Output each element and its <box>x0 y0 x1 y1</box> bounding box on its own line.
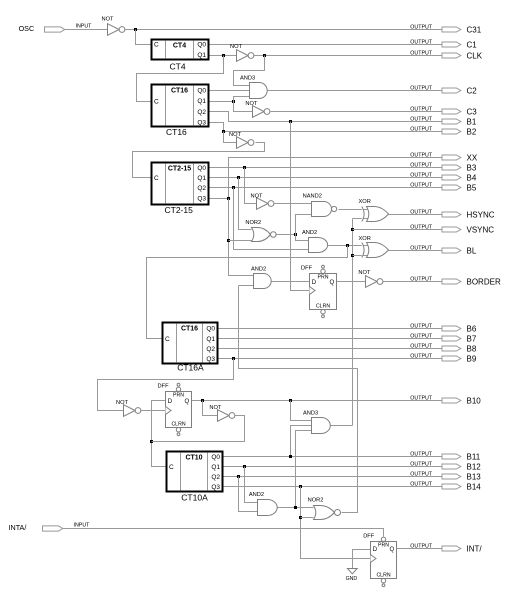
wire CLK branch to AND3 top input <box>234 56 265 86</box>
svg-text:INTA/: INTA/ <box>9 523 27 532</box>
junction dot VSYNC start <box>351 228 354 231</box>
wire feedback from NOT5 <box>152 416 245 442</box>
svg-text:OUTPUT: OUTPUT <box>410 471 433 477</box>
svg-text:CT2-15: CT2-15 <box>165 205 194 215</box>
svg-text:VSYNC: VSYNC <box>467 225 495 234</box>
XOR gate U11 (BL) <box>359 236 389 258</box>
svg-text:CLK: CLK <box>467 51 483 60</box>
wire VSYNC output <box>353 229 443 231</box>
svg-text:NOT: NOT <box>251 193 264 199</box>
svg-text:Q2: Q2 <box>211 474 220 481</box>
svg-text:OUTPUT: OUTPUT <box>410 39 433 45</box>
wire B2 branch down to NOT3 input <box>224 132 237 143</box>
NOT gate U4 (C3 inverter) <box>245 101 270 117</box>
output connector C2 <box>410 85 477 95</box>
wire INTA input to DFF3 PRN <box>63 529 384 537</box>
wire NOT out to C3 output <box>271 111 443 113</box>
junction dot B12 branch <box>243 465 246 468</box>
output connector B3 <box>410 162 477 172</box>
wire AND3-2 out to vertical <box>331 425 353 427</box>
junction dot CT4 Q1 <box>222 54 225 57</box>
svg-text:NOT: NOT <box>116 400 129 406</box>
wire AND2-2 out to XOR2 top input <box>328 245 368 247</box>
counter CT16 <box>152 85 209 137</box>
svg-text:DFF: DFF <box>363 534 375 540</box>
junction dot D feedback <box>150 440 153 443</box>
wire CT4 Q0 to C1 output <box>209 44 443 46</box>
output connector B13 <box>410 471 481 481</box>
svg-text:OUTPUT: OUTPUT <box>410 323 433 329</box>
svg-text:AND2: AND2 <box>251 266 266 272</box>
wire Q0 branch down to NOT input <box>245 168 257 204</box>
svg-text:INPUT: INPUT <box>76 23 93 29</box>
svg-text:Q0: Q0 <box>197 165 206 172</box>
wire NAND2 out to XOR1 top input <box>339 209 368 211</box>
wire AND2-2 branch to CT16A clock <box>147 246 348 339</box>
wire B9 branch to NOT4 input <box>98 359 234 411</box>
wire OSC input to NOT1 <box>65 29 108 31</box>
wire Q1 junction down-left to CT16 C <box>137 56 224 102</box>
svg-text:NOT: NOT <box>209 405 222 411</box>
wire XOR1 out to HSYNC output <box>389 214 443 216</box>
svg-text:B4: B4 <box>467 173 477 182</box>
svg-text:B1: B1 <box>467 117 477 126</box>
svg-text:Q: Q <box>330 280 335 286</box>
wire Q3 branch to NOR2 bottom input <box>229 240 252 242</box>
wire XOR2 out to BL output <box>389 250 443 252</box>
svg-text:Q2: Q2 <box>197 185 206 192</box>
svg-text:CT16: CT16 <box>166 127 187 137</box>
counter CT4 <box>152 40 209 72</box>
svg-text:HSYNC: HSYNC <box>467 210 495 219</box>
svg-text:Q1: Q1 <box>211 464 220 471</box>
svg-text:B9: B9 <box>467 354 477 363</box>
svg-text:Q2: Q2 <box>197 109 206 116</box>
svg-text:B14: B14 <box>467 482 482 491</box>
output connector B11 <box>410 451 480 461</box>
wire CT16A Q1 to B7 output <box>218 338 443 340</box>
svg-text:PRN: PRN <box>378 542 389 548</box>
svg-text:Q3: Q3 <box>206 356 215 363</box>
svg-text:OUTPUT: OUTPUT <box>410 245 433 251</box>
svg-text:Q2: Q2 <box>206 346 215 353</box>
junction dot CT2-15 Q1 <box>237 176 240 179</box>
svg-text:OUTPUT: OUTPUT <box>410 126 433 132</box>
wire CT16A Q3 to B9 output <box>218 358 443 360</box>
svg-text:OSC: OSC <box>19 24 35 33</box>
svg-text:OUTPUT: OUTPUT <box>410 481 433 487</box>
wire Q1 junction up to AND3 bottom input <box>234 97 250 102</box>
output connector B14 <box>410 481 481 491</box>
svg-text:B3: B3 <box>467 163 477 172</box>
svg-text:Q0: Q0 <box>206 326 215 333</box>
output connector B9 <box>410 353 477 363</box>
NOT gate U1 (OSC inverter) <box>102 17 125 36</box>
svg-text:OUTPUT: OUTPUT <box>410 353 433 359</box>
wire AND3-2 out vertical up <box>352 219 354 426</box>
wire CT16A Q2 to B8 output <box>218 348 443 350</box>
svg-text:NOT: NOT <box>358 270 371 276</box>
svg-text:CT10A: CT10A <box>181 493 208 503</box>
D flip-flop DFF2 <box>158 383 192 435</box>
svg-text:C: C <box>154 42 159 49</box>
svg-text:NOR2: NOR2 <box>308 497 324 503</box>
svg-text:B6: B6 <box>467 324 477 333</box>
svg-text:C: C <box>165 336 170 343</box>
wire NOT2 out to CLK output <box>254 55 443 57</box>
AND2 gate U9 <box>302 230 328 253</box>
junction dot AND2-2 out branch <box>346 244 349 247</box>
svg-text:Q1: Q1 <box>197 52 206 59</box>
wire junction to CT4 C input <box>136 30 152 45</box>
wire AND2-1 out to DFF1 D <box>272 281 310 283</box>
svg-text:DFF: DFF <box>301 266 313 272</box>
input connector INTA <box>43 522 91 531</box>
svg-text:Q3: Q3 <box>211 484 220 491</box>
output connector B8 <box>410 343 477 353</box>
junction dot NOR2-2 bottom input <box>299 516 302 519</box>
svg-text:C2: C2 <box>467 86 478 95</box>
wire NOT4 out to DFF2 clock <box>141 410 166 412</box>
wire CT2-15 Q3 stub <box>209 198 229 200</box>
junction dot AND2-3 out <box>294 506 297 509</box>
svg-text:NOR2: NOR2 <box>245 220 261 226</box>
ground GND <box>346 569 358 582</box>
NOT gate U5 (B2 inverter) <box>229 132 254 148</box>
wire CT16 Q2 jog to B1 output <box>209 112 443 122</box>
wire NOR2 out down to AND2 top input <box>296 235 309 241</box>
wire DFF2 D input <box>152 401 167 467</box>
wire AND3-2 middle input from B11 <box>291 426 312 457</box>
svg-text:B8: B8 <box>467 344 477 353</box>
output connector C3 <box>410 106 477 116</box>
svg-text:B12: B12 <box>467 462 482 471</box>
junction dot CLK branch <box>263 54 266 57</box>
svg-text:D: D <box>168 399 173 405</box>
output connector INT/ <box>410 543 482 553</box>
wire CT4 Q1 to NOT2 <box>209 55 237 57</box>
svg-text:NAND2: NAND2 <box>303 193 322 199</box>
output connector C31 <box>410 24 481 34</box>
output connector B2 <box>410 126 477 136</box>
svg-text:B10: B10 <box>467 396 482 405</box>
wire B10 branch to AND3-2 top input <box>291 401 312 421</box>
svg-text:OUTPUT: OUTPUT <box>410 451 433 457</box>
junction dot B11 branch <box>289 455 292 458</box>
svg-text:OUTPUT: OUTPUT <box>410 182 433 188</box>
svg-text:NOT: NOT <box>229 132 242 138</box>
svg-text:CT2-15: CT2-15 <box>168 166 191 173</box>
svg-text:CT4: CT4 <box>173 43 186 50</box>
wire B14 branch to NOR2 and DFF3 clock <box>301 487 371 559</box>
output connector B1 <box>410 116 477 126</box>
svg-text:Q0: Q0 <box>197 42 206 49</box>
svg-text:CLRN: CLRN <box>171 421 185 427</box>
svg-text:OUTPUT: OUTPUT <box>410 461 433 467</box>
svg-text:AND3: AND3 <box>240 76 255 82</box>
wire AND3 out to C2 output <box>268 90 443 92</box>
svg-text:OUTPUT: OUTPUT <box>410 209 433 215</box>
svg-text:B7: B7 <box>467 334 477 343</box>
svg-text:D: D <box>312 280 317 286</box>
NOT gate U15 (DFF2 feedback) <box>209 405 235 422</box>
wire B12 branch to AND2-3 top input <box>245 467 258 503</box>
svg-text:DFF: DFF <box>158 383 170 389</box>
NOT gate U14 (B9 inverter) <box>116 400 141 417</box>
svg-text:CT10: CT10 <box>185 455 202 462</box>
wire NOR2-2 out long path <box>239 286 358 513</box>
svg-text:OUTPUT: OUTPUT <box>410 85 433 91</box>
svg-text:CT16: CT16 <box>181 326 198 333</box>
svg-text:Q0: Q0 <box>211 454 220 461</box>
svg-text:OUTPUT: OUTPUT <box>410 224 433 230</box>
svg-text:CLRN: CLRN <box>316 303 330 309</box>
svg-text:B2: B2 <box>467 127 477 136</box>
D flip-flop DFF3 <box>363 534 396 587</box>
svg-text:Q3: Q3 <box>197 120 206 127</box>
output connector BL <box>410 245 477 255</box>
svg-text:OUTPUT: OUTPUT <box>410 24 433 30</box>
wire NOR2 out up to NAND2 bottom input <box>296 215 312 235</box>
svg-text:NOT: NOT <box>245 101 258 107</box>
svg-text:C: C <box>169 464 174 471</box>
junction dot C31/CT4 clock <box>134 28 137 31</box>
svg-text:OUTPUT: OUTPUT <box>410 50 433 56</box>
output connector B4 <box>410 172 477 182</box>
svg-text:NOT: NOT <box>102 17 115 23</box>
wire CT10A Q1 to B12 output <box>223 466 443 468</box>
junction dot CT2-15 Q2 <box>232 186 235 189</box>
wire B1 branch down to DFF1 clock <box>291 122 310 291</box>
wire GND to DFF3 D <box>353 550 371 569</box>
wire to NOR2-2 bottom input <box>301 517 314 519</box>
output connector B5 <box>410 182 477 192</box>
junction dot CT16 Q1 <box>232 100 235 103</box>
wire NOT out to NAND2 top input <box>275 203 312 205</box>
svg-text:OUTPUT: OUTPUT <box>410 276 433 282</box>
wire Q1 branch down to NOR2 top input <box>239 178 252 230</box>
svg-text:BORDER: BORDER <box>467 277 501 286</box>
svg-text:XOR: XOR <box>359 199 371 205</box>
output connector XX <box>410 152 478 162</box>
wire Q2 branch down to AND2 bottom input <box>234 188 309 250</box>
output connector B12 <box>410 461 481 471</box>
wire NOT out to BORDER output <box>383 281 443 283</box>
wire Q3 branch down <box>229 199 254 276</box>
svg-text:OUTPUT: OUTPUT <box>410 543 433 549</box>
AND3 gate U3 (C2) <box>240 76 267 99</box>
output connector B10 <box>410 395 481 405</box>
svg-text:Q1: Q1 <box>206 336 215 343</box>
counter CT2-15 <box>152 163 209 215</box>
svg-text:Q: Q <box>390 547 395 553</box>
svg-text:OUTPUT: OUTPUT <box>410 343 433 349</box>
svg-text:Q1: Q1 <box>197 175 206 182</box>
junction dot CT2-15 Q3 <box>227 197 230 200</box>
wire CT10A Q0 to B11 output <box>223 456 443 458</box>
NOT gate U13 (BORDER) <box>358 270 383 288</box>
input connector OSC <box>45 23 93 32</box>
NOT gate U6 (Q0 inverter) <box>251 193 274 209</box>
junction dot XOR2 bottom input <box>351 254 354 257</box>
junction dot B13 branch <box>237 475 240 478</box>
output connector VSYNC <box>410 224 494 234</box>
junction dot B10 to NOT5 <box>201 399 204 402</box>
svg-text:INPUT: INPUT <box>74 522 91 528</box>
wire NOT3 out to CT2-15 C input <box>133 143 265 178</box>
NOR2 gate U8 <box>245 220 276 241</box>
svg-text:AND2: AND2 <box>302 230 317 236</box>
junction dot B2 branch <box>222 130 225 133</box>
junction dot Q3 to NOR2 bottom <box>227 239 230 242</box>
svg-text:OUTPUT: OUTPUT <box>410 116 433 122</box>
wire AND2-3 out to NOR2-2 top input <box>278 507 314 509</box>
wire NOT1 out to C31 output <box>125 29 443 31</box>
output connector CLK <box>410 50 482 60</box>
wire DFF2 Q to B10 output <box>192 400 443 402</box>
svg-text:OUTPUT: OUTPUT <box>410 106 433 112</box>
svg-text:CT4: CT4 <box>170 62 186 72</box>
svg-text:C3: C3 <box>467 107 478 116</box>
svg-text:AND3: AND3 <box>303 410 318 416</box>
svg-text:PRN: PRN <box>318 274 329 280</box>
svg-text:OUTPUT: OUTPUT <box>410 333 433 339</box>
output connector B6 <box>410 323 477 333</box>
output connector B7 <box>410 333 477 343</box>
wire NOR2 out to junction <box>277 234 296 236</box>
wire CT2-15 Q2 to B5 output <box>209 187 443 189</box>
wire B10 branch down to NOT5 input <box>203 401 218 416</box>
output connector HSYNC <box>410 209 494 219</box>
D flip-flop DFF1 <box>301 265 337 317</box>
svg-text:C: C <box>154 99 159 106</box>
wire XOR2 bottom input <box>353 255 368 257</box>
junction dot B9 branch <box>232 357 235 360</box>
junction dot B1 clock branch <box>289 120 292 123</box>
svg-text:NOT: NOT <box>230 44 243 50</box>
svg-text:INT/: INT/ <box>467 544 483 553</box>
svg-text:XOR: XOR <box>359 236 371 242</box>
AND3 gate U16 <box>303 410 330 433</box>
wire DFF3 Q to INT output <box>397 548 443 550</box>
svg-text:Q3: Q3 <box>197 196 206 203</box>
svg-text:CLRN: CLRN <box>376 572 390 578</box>
svg-text:PRN: PRN <box>173 392 184 398</box>
XOR gate U10 (HSYNC) <box>359 199 389 222</box>
NOT gate U2 (CLK inverter) <box>230 44 254 61</box>
svg-text:B13: B13 <box>467 472 482 481</box>
svg-text:Q: Q <box>185 399 190 405</box>
NAND2 gate U7 <box>303 193 337 216</box>
wire CT2-15 Q0 to B3 output <box>209 167 443 169</box>
svg-text:OUTPUT: OUTPUT <box>410 172 433 178</box>
AND2 gate U17 <box>249 492 277 516</box>
svg-text:B5: B5 <box>467 183 477 192</box>
wire CT16 Q1 to junction <box>209 101 234 103</box>
wire CT2-15 Q1 to B4 output <box>209 177 443 179</box>
counter CT10A <box>167 452 223 503</box>
svg-text:BL: BL <box>467 246 477 255</box>
svg-text:B11: B11 <box>467 452 481 461</box>
svg-text:XX: XX <box>467 153 478 162</box>
wire B13 branch to AND2-3 bottom input <box>239 477 258 512</box>
wire CT16A Q0 to B6 output <box>218 328 443 330</box>
wire AND3-2 bottom input from AND2-3 out <box>296 431 312 508</box>
wire CT16 Q3 jog to B2 output <box>209 123 443 132</box>
svg-text:OUTPUT: OUTPUT <box>410 162 433 168</box>
svg-text:Q0: Q0 <box>197 88 206 95</box>
counter CT16A <box>163 323 218 373</box>
svg-text:OUTPUT: OUTPUT <box>410 395 433 401</box>
junction dot B14 branch <box>299 485 302 488</box>
output connector C1 <box>410 39 477 49</box>
junction dot CT2-15 Q0 <box>243 166 246 169</box>
svg-text:AND2: AND2 <box>249 492 264 498</box>
wire CT10A Q2 to B13 output <box>223 476 443 478</box>
svg-text:GND: GND <box>346 576 358 582</box>
svg-text:C31: C31 <box>467 25 482 34</box>
svg-text:CT16: CT16 <box>171 88 188 95</box>
svg-text:OUTPUT: OUTPUT <box>410 152 433 158</box>
output connector BORDER <box>410 276 501 286</box>
junction dot NOR2 output <box>294 233 297 236</box>
wire NOR2-2 out up to AND2-1 bottom input <box>239 285 254 287</box>
wire XOR1 bottom input from vertical <box>353 218 368 220</box>
wire Q1 junction down to NOT C3 input <box>234 102 253 112</box>
svg-text:C: C <box>154 175 159 182</box>
svg-text:C1: C1 <box>467 40 478 49</box>
junction dot B10 to AND3-2 <box>289 399 292 402</box>
wire DFF1 Q to NOT input <box>337 281 366 283</box>
wire CT10A Q3 to B14 output <box>223 486 443 488</box>
svg-text:CT16A: CT16A <box>177 363 204 373</box>
wire CT16 Q0 to AND3 middle input <box>209 90 250 92</box>
AND2 gate U12 (DFF1 D) <box>251 266 271 288</box>
svg-text:Q1: Q1 <box>197 98 206 105</box>
NOR2 gate U18 <box>308 497 341 519</box>
wire CT2-15 Q3 branch up to XX output <box>229 158 443 199</box>
